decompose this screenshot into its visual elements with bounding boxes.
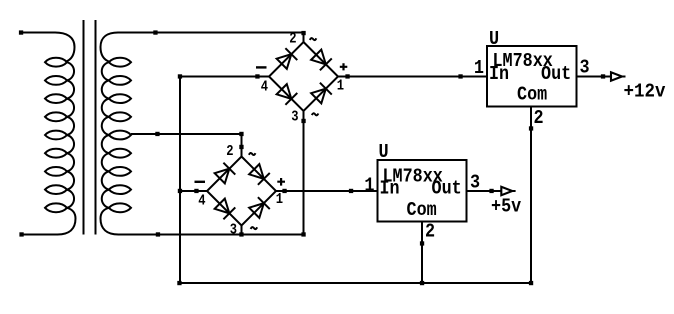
svg-text:2: 2 (425, 221, 435, 243)
junction BR2 pin2 hotspot (239, 145, 243, 149)
diode BR1 D1 (pin4 to pin2) (276, 48, 297, 69)
transformer secondary winding loops (102, 58, 131, 212)
junction secondary tap pin (155, 132, 159, 136)
BR2 AC tilde bottom (251, 227, 258, 229)
svg-text:2: 2 (289, 31, 296, 48)
junction corner DC minus top (178, 74, 182, 78)
junction ground bus left corner (177, 281, 181, 285)
svg-text:Out: Out (541, 63, 571, 85)
junction corner of tap wire (239, 132, 243, 136)
svg-text:In: In (489, 63, 509, 85)
bridge rectifier BR1 diamond (269, 42, 338, 111)
diode BR2 D2 (pin2 to pin1) (248, 163, 269, 184)
svg-text:1: 1 (474, 57, 484, 79)
svg-text:In: In (380, 178, 400, 200)
BR1 pin1 lead (338, 76, 348, 78)
diode BR1 D2 (pin2 to pin1) (310, 49, 331, 70)
BR2 AC tilde top (249, 153, 256, 155)
svg-text:3: 3 (470, 172, 480, 194)
bridge rectifier BR2 diamond (207, 157, 276, 226)
svg-text:Com: Com (407, 199, 437, 221)
svg-text:Out: Out (432, 178, 462, 200)
wire secondary center tap to bridge BR2 pin2 (131, 134, 242, 157)
svg-text:3: 3 (291, 109, 298, 126)
diode BR1 D3 (pin4 to pin3) (276, 83, 297, 104)
U2 +5v output arrow (501, 187, 515, 195)
junction tee DC minus to BR2 (178, 189, 182, 193)
op-amp/regulator U1 LM78xx box (487, 46, 577, 107)
junction primary bottom terminal (19, 232, 23, 236)
transformer secondary winding entry hook (101, 33, 119, 62)
transformer primary winding loops (45, 58, 74, 212)
junction BR1 pin3 hotspot (301, 119, 305, 123)
svg-text:U: U (489, 28, 499, 50)
wire BR2 pin1 to regulator U2 In (276, 190, 378, 192)
diode BR2 D4 (pin3 to pin1) (248, 197, 269, 218)
wire ground bottom bus (180, 282, 532, 284)
diode BR1 D4 (pin3 to pin1) (310, 83, 331, 104)
wire U2 Out to +5v arrow (467, 190, 502, 192)
junction U2 pin2 hotspot (420, 241, 424, 245)
wire U1 Out to +12v arrow (577, 76, 612, 78)
svg-text:1: 1 (364, 175, 374, 197)
BR2 minus label (195, 181, 206, 183)
junction U2 pin3 hotspot (489, 189, 493, 193)
wire secondary top lead to bridge BR1 pin2 (118, 33, 304, 43)
diode BR2 D3 (pin4 to pin3) (214, 198, 235, 219)
wire BR1 pin1 to regulator U1 In (338, 76, 487, 78)
BR2 pin4 lead (197, 190, 208, 192)
wire DC minus: long vertical bus x=180 (179, 77, 181, 284)
svg-text:4: 4 (261, 79, 268, 96)
transformer primary winding entry hook (21, 33, 75, 62)
transformer secondary winding exit hook (101, 208, 119, 235)
wire secondary bottom lead to BR2 pin3 and BR1 pin3 (119, 234, 304, 236)
wire BR1 pin2 stub (303, 33, 305, 44)
svg-text:2: 2 (226, 143, 233, 160)
U1 +12v output arrow (611, 72, 626, 80)
BR1 AC tilde top (310, 38, 317, 40)
BR1 plus label (340, 63, 348, 70)
svg-text:U: U (379, 141, 389, 163)
svg-text:3: 3 (580, 57, 590, 79)
junction U2 pin1 hotspot (349, 189, 353, 193)
BR2 pin1 lead (276, 190, 285, 192)
junction corner AC wire to BR1 pin3 (301, 232, 305, 236)
svg-text:1: 1 (337, 78, 344, 95)
junction ground bus right corner (529, 281, 533, 285)
junction secondary top pin (153, 30, 157, 34)
BR1 minus label (256, 66, 267, 68)
junction BR1 pin4 hotspot (255, 74, 259, 78)
svg-text:3: 3 (230, 222, 237, 239)
junction BR1 pin1 hotspot (345, 74, 349, 78)
junction secondary bottom pin (156, 232, 160, 236)
svg-text:1: 1 (276, 191, 283, 208)
svg-text:4: 4 (198, 193, 205, 210)
wire BR2 pin3 stub (241, 226, 243, 235)
junction corner above BR1 pin2 (301, 31, 305, 35)
wire DC minus to BR1 pin4 (180, 76, 269, 78)
BR1 AC tilde bottom (312, 113, 319, 115)
transformer core line right (95, 20, 97, 235)
junction U1 pin2 hotspot (529, 126, 533, 130)
BR1 pin4 lead (258, 76, 270, 78)
junction U1 pin1 hotspot (458, 74, 462, 78)
diode BR2 D1 (pin4 to pin2) (214, 163, 235, 184)
junction tee U2 com on ground bus (420, 281, 424, 285)
transformer core line left (83, 20, 85, 235)
op-amp/regulator U2 LM78xx box (378, 160, 467, 222)
junction BR2 pin1 hotspot (282, 189, 286, 193)
svg-text:+12v: +12v (624, 81, 667, 103)
svg-text:+5v: +5v (491, 196, 522, 218)
junction primary top terminal (19, 30, 23, 34)
wire DC minus to BR2 pin4 (180, 190, 207, 192)
junction BR2 pin4 hotspot (194, 189, 198, 193)
junction U1 pin3 hotspot (601, 74, 605, 78)
wire BR1 pin3 down to AC bottom wire (303, 111, 305, 235)
BR2 plus label (277, 178, 285, 186)
transformer primary winding exit hook + bottom lead wire (22, 208, 76, 235)
wire U1 Com pin2 down to ground bus (530, 107, 532, 284)
BR2 pin2 lead (241, 147, 243, 157)
junction tee BR2 pin3 on AC wire (239, 232, 243, 236)
svg-text:Com: Com (517, 84, 547, 106)
wire U2 Com pin2 down to ground bus (421, 222, 423, 284)
svg-text:2: 2 (534, 107, 544, 129)
